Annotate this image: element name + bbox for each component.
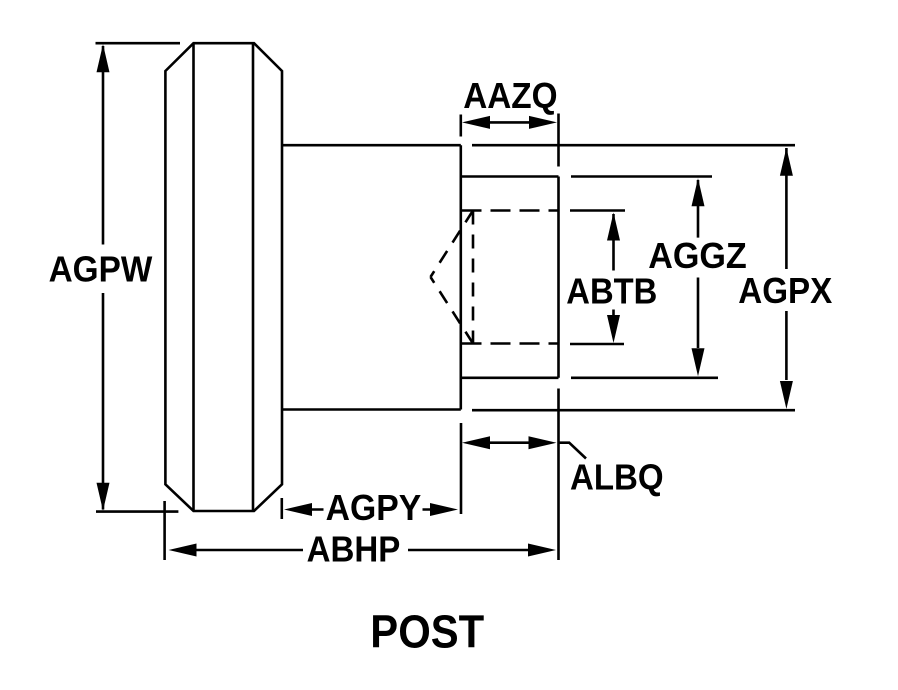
svg-text:AGPY: AGPY — [326, 487, 422, 528]
svg-text:POST: POST — [370, 606, 484, 658]
svg-text:AGPW: AGPW — [49, 249, 153, 290]
svg-text:ALBQ: ALBQ — [570, 457, 664, 498]
svg-text:ABTB: ABTB — [566, 271, 657, 312]
svg-text:ABHP: ABHP — [307, 529, 401, 570]
svg-text:AGGZ: AGGZ — [648, 235, 747, 276]
svg-text:AGPX: AGPX — [738, 270, 832, 311]
svg-text:AAZQ: AAZQ — [463, 75, 557, 116]
